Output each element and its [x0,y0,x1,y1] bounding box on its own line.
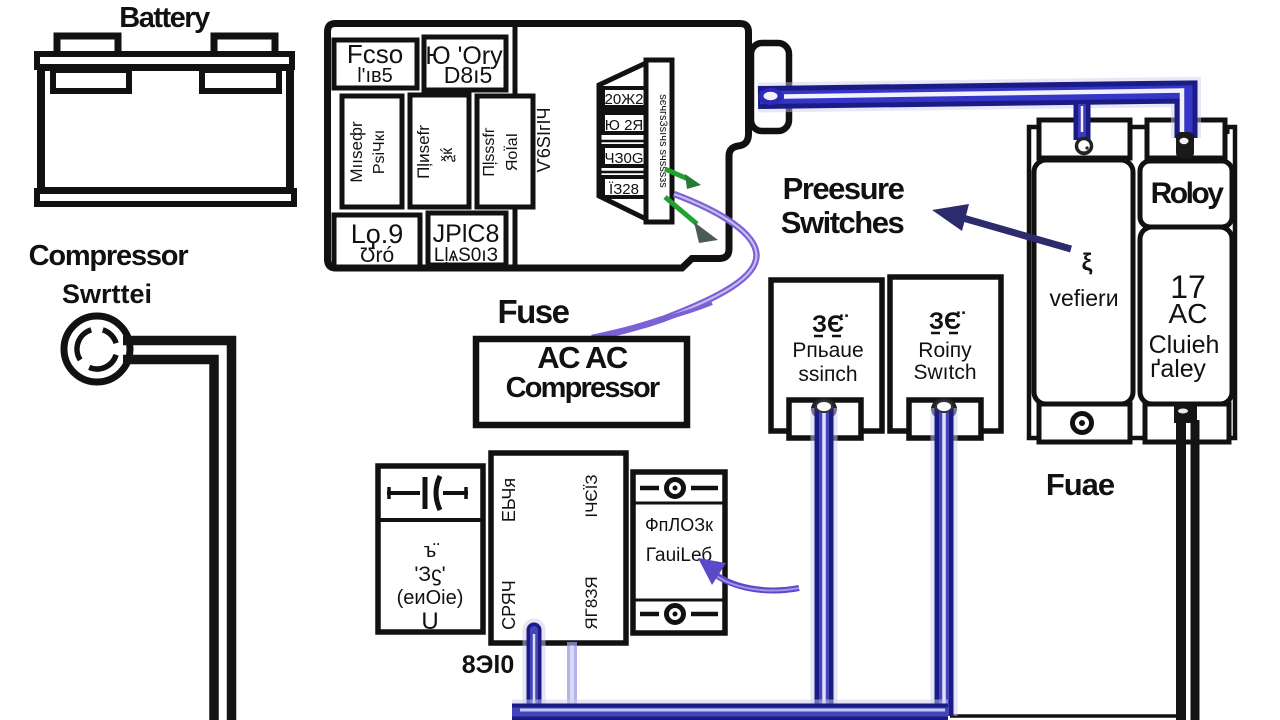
svg-text:Preesure: Preesure [783,171,905,206]
S1 terminal notch [789,400,861,438]
svg-text:ѯќ: ѯќ [439,147,456,162]
pressure switch S2 [890,277,1001,431]
wire from compressor (outer) [123,341,232,720]
battery B1 case [41,67,290,191]
navy arrow to pressure switches label [932,204,1071,249]
fuse box outline [328,24,749,269]
svg-text:Ѵ6ЅІгІЧ: Ѵ6ЅІгІЧ [534,107,554,172]
relay slot K3 [477,96,533,207]
relay U2 body [1140,227,1232,404]
fuse F1 [334,39,417,88]
svg-text:ѕєчгѕ3ѕıчѕ ѕчѕѕѕзѕ: ѕєчгѕ3ѕıчѕ ѕчѕѕѕзѕ [657,94,669,188]
diode module box C [633,472,725,633]
battery B1 positive terminal [57,36,118,55]
svg-text:Compressor: Compressor [29,240,189,272]
compressor clutch coil symbol [64,316,130,382]
capacitor symbol in box A [387,476,468,510]
purple arrow to box C [698,558,799,590]
fuse box inner divider [513,26,518,266]
svg-text:Fuse: Fuse [497,293,569,330]
wire from compressor (inner) [123,360,214,720]
svg-text:ЯГ8ЗЯ: ЯГ8ЗЯ [582,576,601,629]
fuse box side tab [751,43,789,131]
battery B1 right cell cap [202,70,279,91]
svg-text:СРЯЧ: СРЯЧ [499,580,519,630]
control module box A [378,466,483,632]
fuse F2 [424,37,506,90]
battery B1 negative terminal [214,36,275,55]
S2 terminal post [933,400,955,418]
svg-text:Battery: Battery [119,2,210,34]
box C bottom terminal [640,606,718,623]
thin ground rail at bottom right [950,714,1181,718]
svg-text:Switches: Switches [781,205,904,240]
relay slot K1 [342,96,402,207]
relay U2 bottom terminal block [1145,404,1229,442]
purple wire fork tip [648,303,712,323]
svg-text:AC: AC [1169,298,1208,329]
bottom blue bus [512,710,948,712]
svg-text:Fuае: Fuае [1046,467,1115,502]
relay U1 bottom terminal block [1039,404,1130,442]
svg-text:Мııѕефr: Мııѕефr [347,121,366,183]
svg-text:8Эl0: 8Эl0 [462,651,515,679]
svg-text:Рпьаuе: Рпьаuе [792,339,863,362]
relay U2 top stub [1225,127,1230,134]
svg-text:ЧЗ0G: ЧЗ0G [604,150,643,167]
relay U1 bottom terminal [1073,414,1092,433]
svg-text:ІЧЄЇЗ: ІЧЄЇЗ [582,474,601,517]
svg-text:Ѕwıtсh: Ѕwıtсh [913,361,976,384]
connector pin 4 [603,177,646,198]
battery B1 base [37,191,294,204]
svg-text:ЯоЇаІ: ЯоЇаІ [503,133,521,171]
connector pin 2 [603,113,646,134]
blue power bus from fuse box [758,91,1186,141]
blue wire from box B [523,630,546,710]
battery B1 left cell cap [53,70,129,91]
svg-text:JPlС8: JPlС8 [433,220,500,248]
control module box B [491,453,626,643]
battery B1 top cover [37,54,292,67]
purple wire from connector [592,194,757,338]
S2 terminal notch [909,400,981,438]
svg-text:Ю 2Я: Ю 2Я [605,117,644,134]
svg-text:ЇЗ28: ЇЗ28 [609,181,639,198]
AC compressor box [476,339,687,425]
relay U1 screw [1077,139,1092,154]
blue wire from S2 [931,408,958,716]
svg-text:Ʊró: Ʊró [360,244,394,267]
green arrow 1 [665,169,701,189]
svg-text:'Зϛ': 'Зϛ' [414,563,445,586]
svg-text:(еиОіе): (еиОіе) [397,587,464,609]
svg-text:ЗЄ̈: ЗЄ̈ [812,311,848,338]
svg-text:D8ı5: D8ı5 [444,62,493,88]
ground wire from relay U2 (right strand) [1191,420,1200,720]
svg-text:Пļѕѕѕfг: Пļѕѕѕfг [481,127,498,177]
connector J1 trapezoid [599,62,648,220]
svg-text:РѕіЧкı: РѕіЧкı [371,130,388,174]
svg-text:ґаlеу: ґаlеу [1150,355,1206,383]
svg-text:ЗЄ̈: ЗЄ̈ [929,308,965,335]
relay U1 body [1034,160,1133,404]
fuse F3 [334,215,420,267]
relay U2 top terminal block [1147,120,1225,158]
svg-text:Compressor: Compressor [506,372,660,404]
green arrow 2 [665,197,718,243]
svg-text:U: U [421,608,438,635]
svg-text:AC AC: AC AC [537,340,628,375]
fuse F4 [428,213,506,266]
box C top terminal [640,480,718,497]
svg-text:Rоlоy: Rоlоy [1151,177,1225,210]
relay slot K2 [410,95,469,207]
connector pin 1 [603,88,646,108]
svg-text:Пļиѕеfr: Пļиѕеfr [414,125,433,179]
ground wire from relay U2 (left strand) [1176,420,1186,720]
S1 terminal post [813,400,835,418]
pressure switch S1 [771,280,882,431]
svg-text:l'ıв5: l'ıв5 [357,65,393,87]
svg-text:ЕЬЧя: ЕЬЧя [499,478,519,522]
svg-text:ФпЛОЗк: ФпЛОЗк [645,515,713,535]
bus end cap [759,88,784,105]
svg-text:20Ж2: 20Ж2 [605,91,644,108]
svg-text:Rоіпу: Rоіпу [918,339,972,362]
relay assembly outer frame [1029,127,1235,438]
blue wire from S1 [811,408,838,716]
relay U2 bottom terminal [1174,403,1197,423]
svg-text:ξ: ξ [1082,249,1093,276]
S1 post top [816,401,832,412]
connector body bar [646,60,672,222]
relay U2 label box [1140,161,1232,227]
svg-text:ḺļѧЅ0ıЗ: ḺļѧЅ0ıЗ [434,245,498,266]
svg-text:ѕѕіпсh: ѕѕіпсh [798,363,857,386]
S2 post top [936,401,952,412]
connector separators [601,109,646,112]
relay U2 screw [1176,132,1194,158]
relay U1 top terminal block [1039,120,1130,158]
svg-text:vеfіеrи: vеfіеrи [1049,285,1118,311]
faint blue wire [567,642,577,712]
connector pin 3 [603,146,646,167]
svg-text:Swrttei: Swrttei [62,279,152,309]
